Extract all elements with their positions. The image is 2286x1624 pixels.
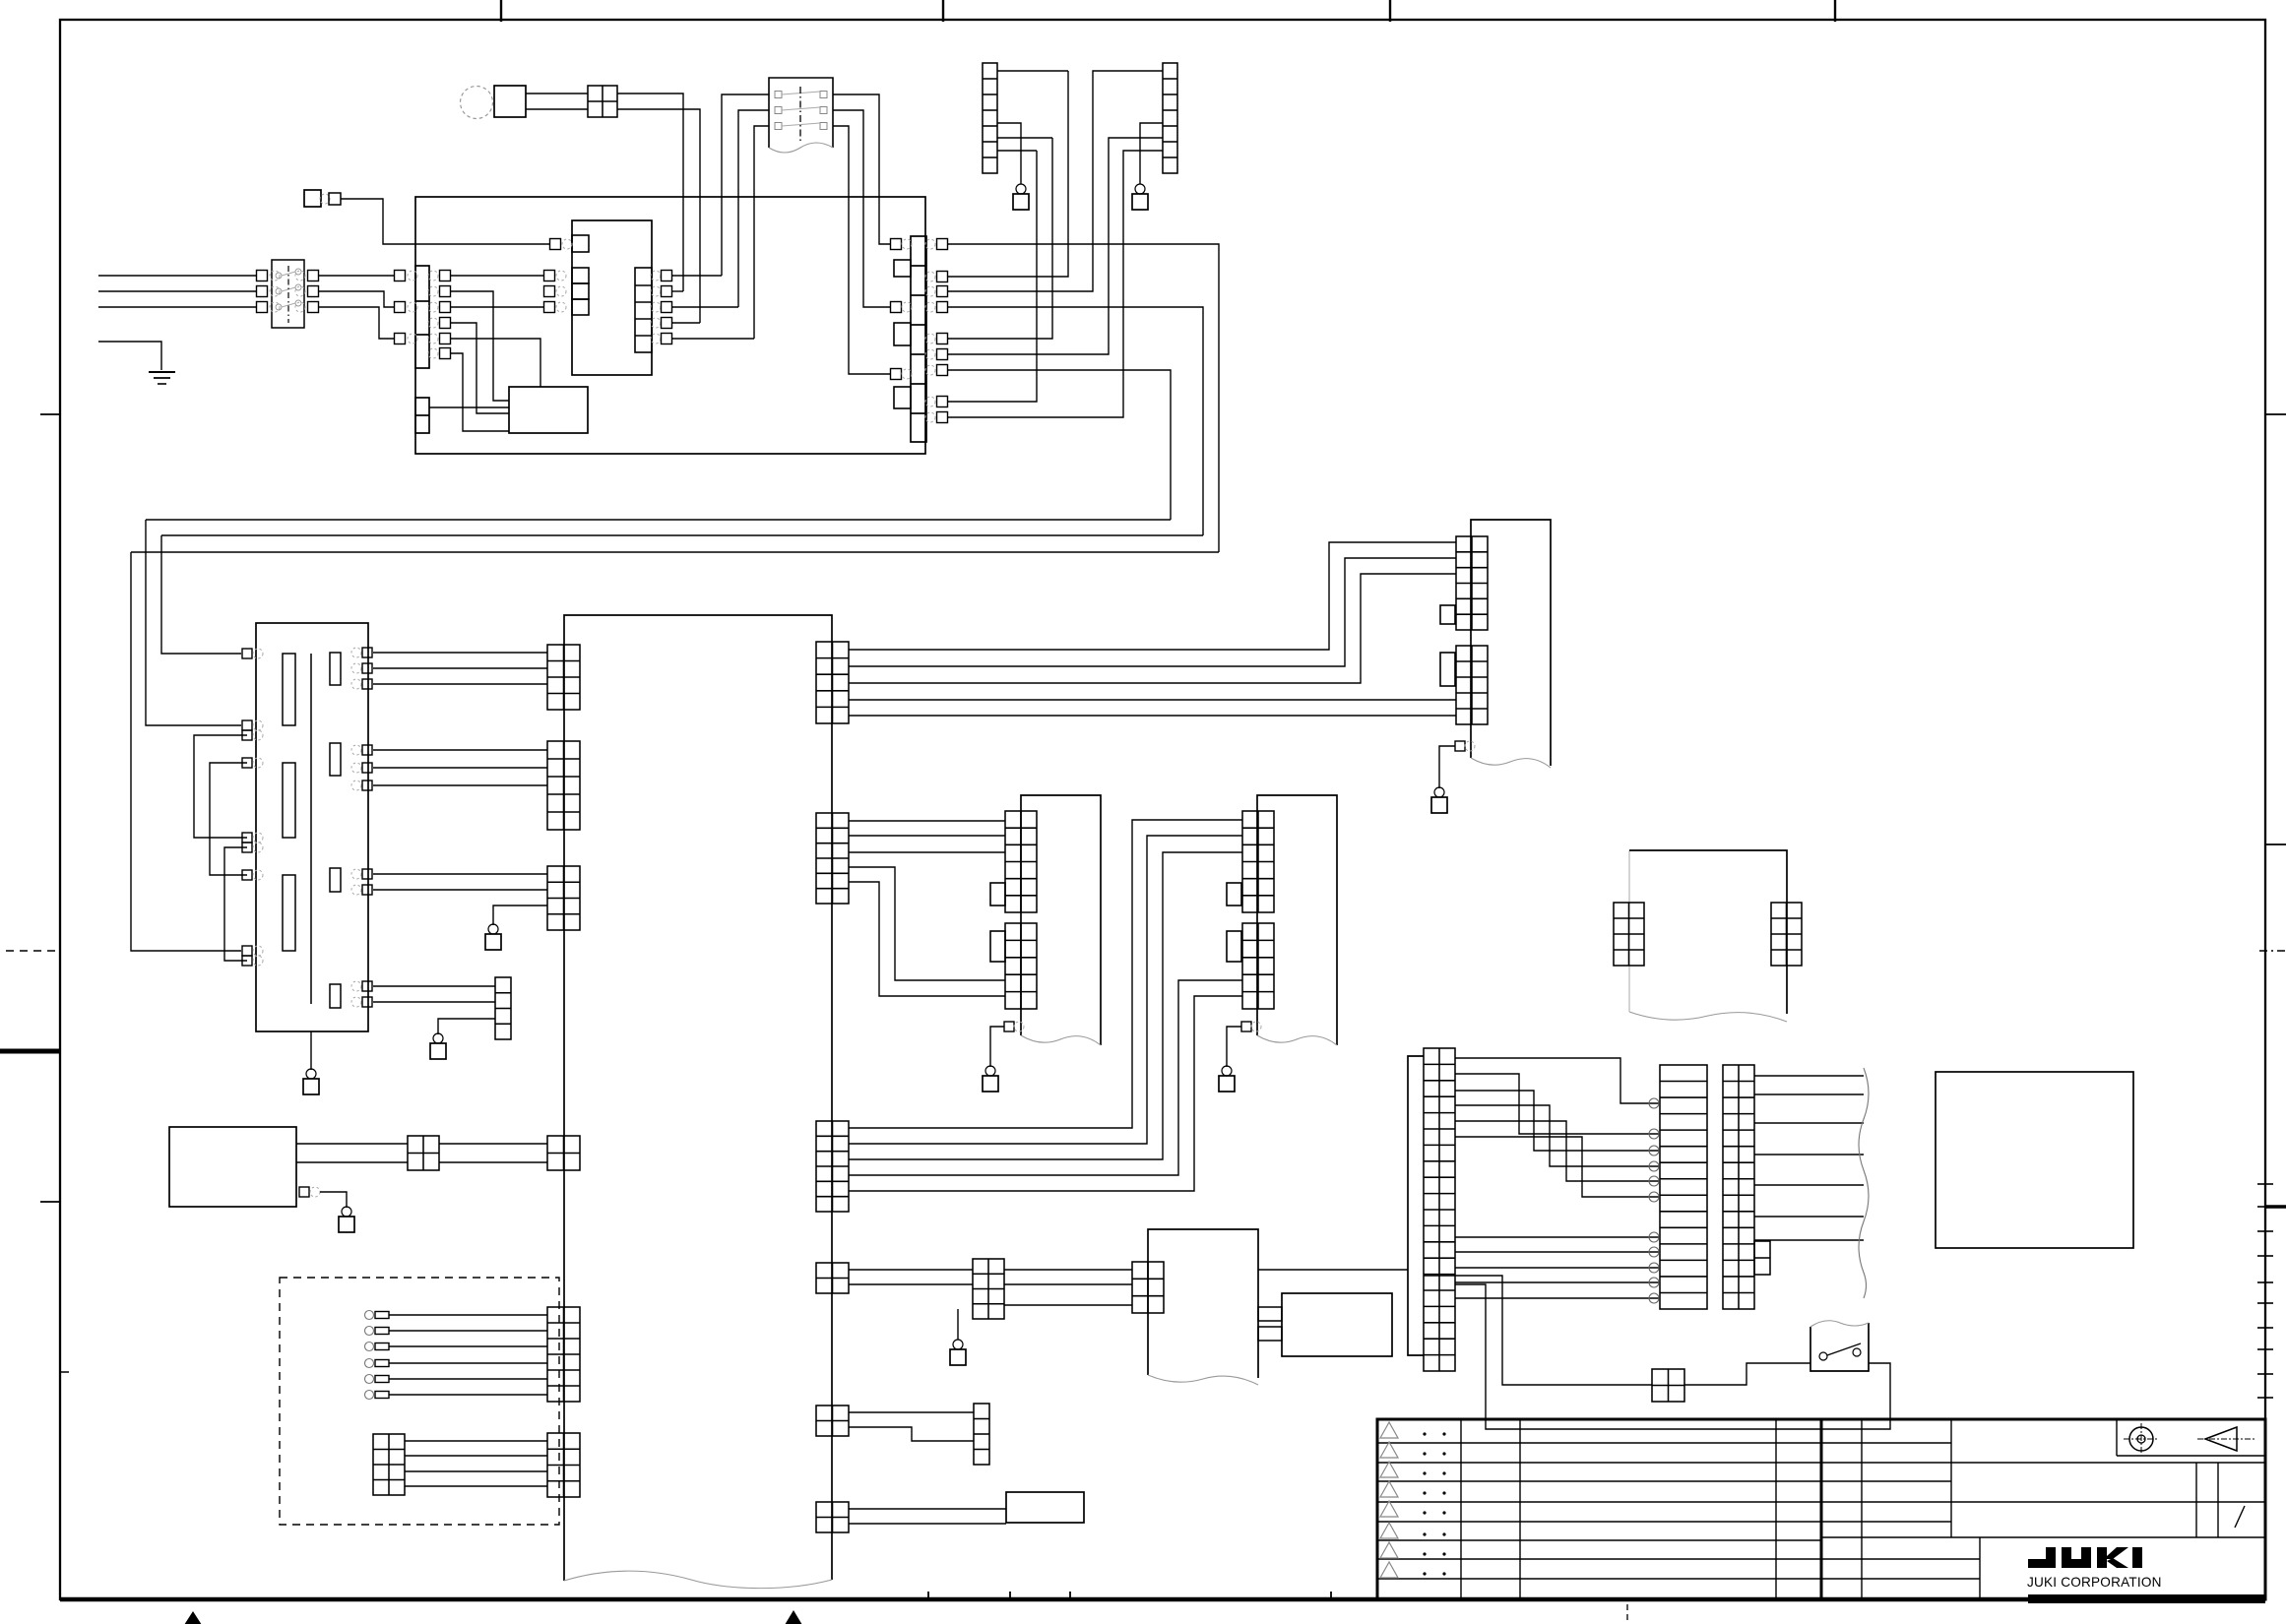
grid I CN42 (816, 1121, 849, 1212)
noise filter box B1 (494, 86, 526, 117)
wire p2 (948, 71, 1068, 277)
grid E CN34 (547, 1307, 580, 1402)
wire (451, 323, 509, 413)
CN4 ground (997, 123, 1021, 184)
grid N2 (1242, 923, 1274, 1009)
option dashed box (280, 1278, 559, 1525)
TR1 left leads (722, 94, 769, 276)
M1 right pins (351, 648, 361, 657)
M1 left pins (242, 649, 252, 658)
ground lug G2 (438, 1019, 495, 1034)
wire (526, 93, 588, 94)
wire p8 (948, 151, 1037, 402)
wires (296, 1143, 408, 1145)
middle section (1861, 1419, 1863, 1599)
wires J to valve box (849, 1269, 973, 1271)
wire (672, 322, 700, 324)
wires K (849, 1411, 974, 1413)
bus verticals to motor (146, 520, 241, 725)
wires I up to sensor N grids (849, 820, 1242, 1128)
fuse F1 (304, 190, 321, 207)
grid H CN41 (816, 813, 849, 904)
wire (451, 339, 540, 387)
wire p4 (948, 307, 1203, 535)
hand unit box (wavy bottom) (1471, 520, 1551, 766)
wires G to hand box (849, 542, 1456, 650)
TR1 contacts (775, 92, 782, 98)
T ground (1004, 1022, 1014, 1031)
transformer TR1 (wavy box) (769, 78, 833, 148)
grid F CN35 (547, 1433, 580, 1497)
grid B CN31 (547, 741, 580, 830)
bottom ruler ticks (927, 1592, 929, 1599)
grid C CN32 (547, 866, 580, 930)
wire (451, 291, 509, 401)
M1 right tabs (330, 653, 341, 685)
grid A CN30 (547, 645, 580, 710)
motor box W (1282, 1293, 1392, 1356)
ground lug G4 (957, 1309, 959, 1340)
wires switch to PSC (319, 275, 394, 277)
revision table columns (1460, 1419, 1462, 1599)
grid G CN40 (816, 642, 849, 723)
wire (429, 406, 509, 408)
projection symbol cell (2116, 1419, 2118, 1456)
slash mark (2235, 1506, 2245, 1528)
AC input wires (98, 275, 257, 277)
CN3 left pins (891, 239, 902, 250)
index triangle 2 (184, 1611, 202, 1624)
CN4 wires (997, 70, 1068, 72)
PSC right connector column CN3 (911, 236, 926, 442)
motor box M1 (256, 623, 368, 1031)
grid J CN43 (816, 1263, 849, 1293)
N2 tab (1227, 931, 1241, 962)
PSC left connector column CN1 (415, 266, 429, 368)
wire p6 (948, 138, 1163, 354)
wires (405, 1440, 547, 1442)
X3 bottom tab (1754, 1241, 1770, 1275)
option terminals (365, 1311, 374, 1320)
right ruler ticks (2257, 1183, 2273, 1185)
valve box V (wavy bottom) (1148, 1229, 1258, 1378)
grid O (973, 1259, 1004, 1319)
ground lug G1 (493, 906, 547, 925)
solenoid box R1 (169, 1127, 296, 1207)
wire p3 (948, 71, 1163, 291)
left border marks (40, 413, 61, 415)
D1 left tabs (572, 235, 589, 252)
U ground (1241, 1022, 1251, 1031)
switch box SW2 (wavy top) (1810, 1323, 1869, 1371)
connector Q2 (974, 1404, 989, 1465)
top border ticks (500, 0, 502, 22)
power switch SW1 (272, 260, 304, 328)
right column X3 (1723, 1065, 1754, 1309)
first angle projection symbol (2129, 1427, 2153, 1451)
wire CN to X1 (1424, 1276, 1652, 1385)
valve grid 2x3 (1132, 1262, 1164, 1313)
connector stack CN4 (left) (983, 63, 997, 173)
motor links (194, 735, 247, 838)
bottom loop wires (1455, 1284, 1890, 1429)
svg-text:JUKI CORPORATION: JUKI CORPORATION (2027, 1575, 2162, 1590)
sensor box U (wavy bottom) (1257, 795, 1337, 1045)
vertical divider right (2195, 1463, 2197, 1537)
V-W tabs (1258, 1307, 1282, 1321)
wires H to sensors (849, 820, 1005, 822)
grid K CN44 (816, 1405, 849, 1436)
AC box right (plain) (1936, 1072, 2133, 1248)
M1 windings (283, 654, 295, 725)
wire p7 (948, 370, 1171, 520)
index triangle (785, 1610, 802, 1624)
wire SW2 to CN (1684, 1363, 1810, 1385)
plug circle P1 (461, 87, 493, 119)
grid panel-left 2x4 (1614, 903, 1644, 966)
connector CN-2x2 bottom (1652, 1369, 1684, 1402)
relay box K1 (509, 387, 588, 433)
revision triangles (1380, 1422, 1398, 1438)
CN5 ground (1140, 123, 1163, 184)
wires L to lamp box (849, 1508, 1006, 1510)
X1 right wires to mid column (1455, 1058, 1660, 1103)
panel box (wavy bottom) (1628, 850, 1630, 1012)
wire (672, 306, 738, 308)
wire (341, 199, 549, 244)
grid panel-right 2x4 (1771, 903, 1802, 966)
mid column X2 (1660, 1065, 1707, 1309)
JUKI logo (2028, 1547, 2056, 1568)
right section rows (1951, 1462, 2265, 1464)
wires O to valve grid (1004, 1269, 1132, 1271)
option connector 2x4 (373, 1434, 405, 1495)
X1 housing bar (1408, 1056, 1424, 1355)
wire (672, 338, 754, 340)
N1 tab (1227, 883, 1241, 906)
wires M1 to CPU grids (373, 652, 547, 654)
bottom center fold mark (1626, 1604, 1628, 1624)
grid S2 (1456, 646, 1488, 724)
X2 circles (1649, 1098, 1659, 1108)
connector Q1 (495, 977, 511, 1039)
connector CN-R 2x2 (408, 1136, 439, 1170)
rectifier box D1 (572, 220, 652, 375)
hand ground (1455, 741, 1465, 751)
X1 lower wires (1455, 1236, 1660, 1238)
wire (451, 306, 543, 308)
grid M2 (1005, 923, 1037, 1009)
CN3 right pins (925, 239, 935, 249)
grid L CN45 (816, 1502, 849, 1532)
wire p1 (948, 244, 1219, 552)
D1 left pins (550, 239, 561, 250)
wire (617, 109, 700, 323)
PSC power box (415, 197, 925, 454)
title block frame (1377, 1419, 2265, 1599)
wire (672, 275, 722, 277)
M2 tab (990, 931, 1005, 962)
wire p9 (948, 151, 1163, 417)
right border marks (2265, 413, 2286, 415)
D1 right pins (651, 271, 661, 281)
S2 tab (1440, 653, 1455, 686)
bus wires (146, 519, 1171, 521)
S1 tab (1440, 605, 1455, 624)
grid M1 (1005, 811, 1037, 912)
wire V top to X1 (1258, 1269, 1408, 1271)
R1 ground lug (299, 1187, 309, 1197)
sensor box T (wavy bottom) (1021, 795, 1101, 1045)
TR1 right leads (833, 94, 890, 244)
revision table rows (1377, 1442, 1821, 1444)
MAIN board (tall box, wavy bottom) (564, 615, 832, 1581)
SW2 contacts (1819, 1352, 1827, 1360)
torn edge (1859, 1068, 1869, 1298)
ground symbol (149, 371, 175, 373)
wires (439, 1143, 547, 1145)
wire (672, 290, 683, 292)
wire (451, 275, 543, 277)
wire (451, 353, 509, 431)
lamp box L1 (1006, 1492, 1084, 1523)
wire p5 (948, 138, 1052, 339)
ground wire (98, 342, 161, 370)
ground lug G3 (310, 1031, 312, 1070)
connector CN-2x2 J1 (588, 86, 617, 117)
big connector column X1 (1424, 1048, 1455, 1371)
CN1 outer pins (395, 271, 406, 281)
X3 exit wires to torn edge (1754, 1075, 1864, 1077)
CN1 inner pins (428, 271, 438, 281)
CN3 side tabs (894, 260, 911, 277)
black bar (2028, 1594, 2265, 1603)
D1 right column (635, 268, 652, 352)
grid D CN33 (547, 1136, 580, 1170)
grid S1 (1456, 536, 1488, 630)
connector stack CN5 (right) (1163, 63, 1177, 173)
grid N1 (1242, 811, 1274, 912)
M1 tab (990, 883, 1005, 906)
wire (617, 94, 683, 291)
